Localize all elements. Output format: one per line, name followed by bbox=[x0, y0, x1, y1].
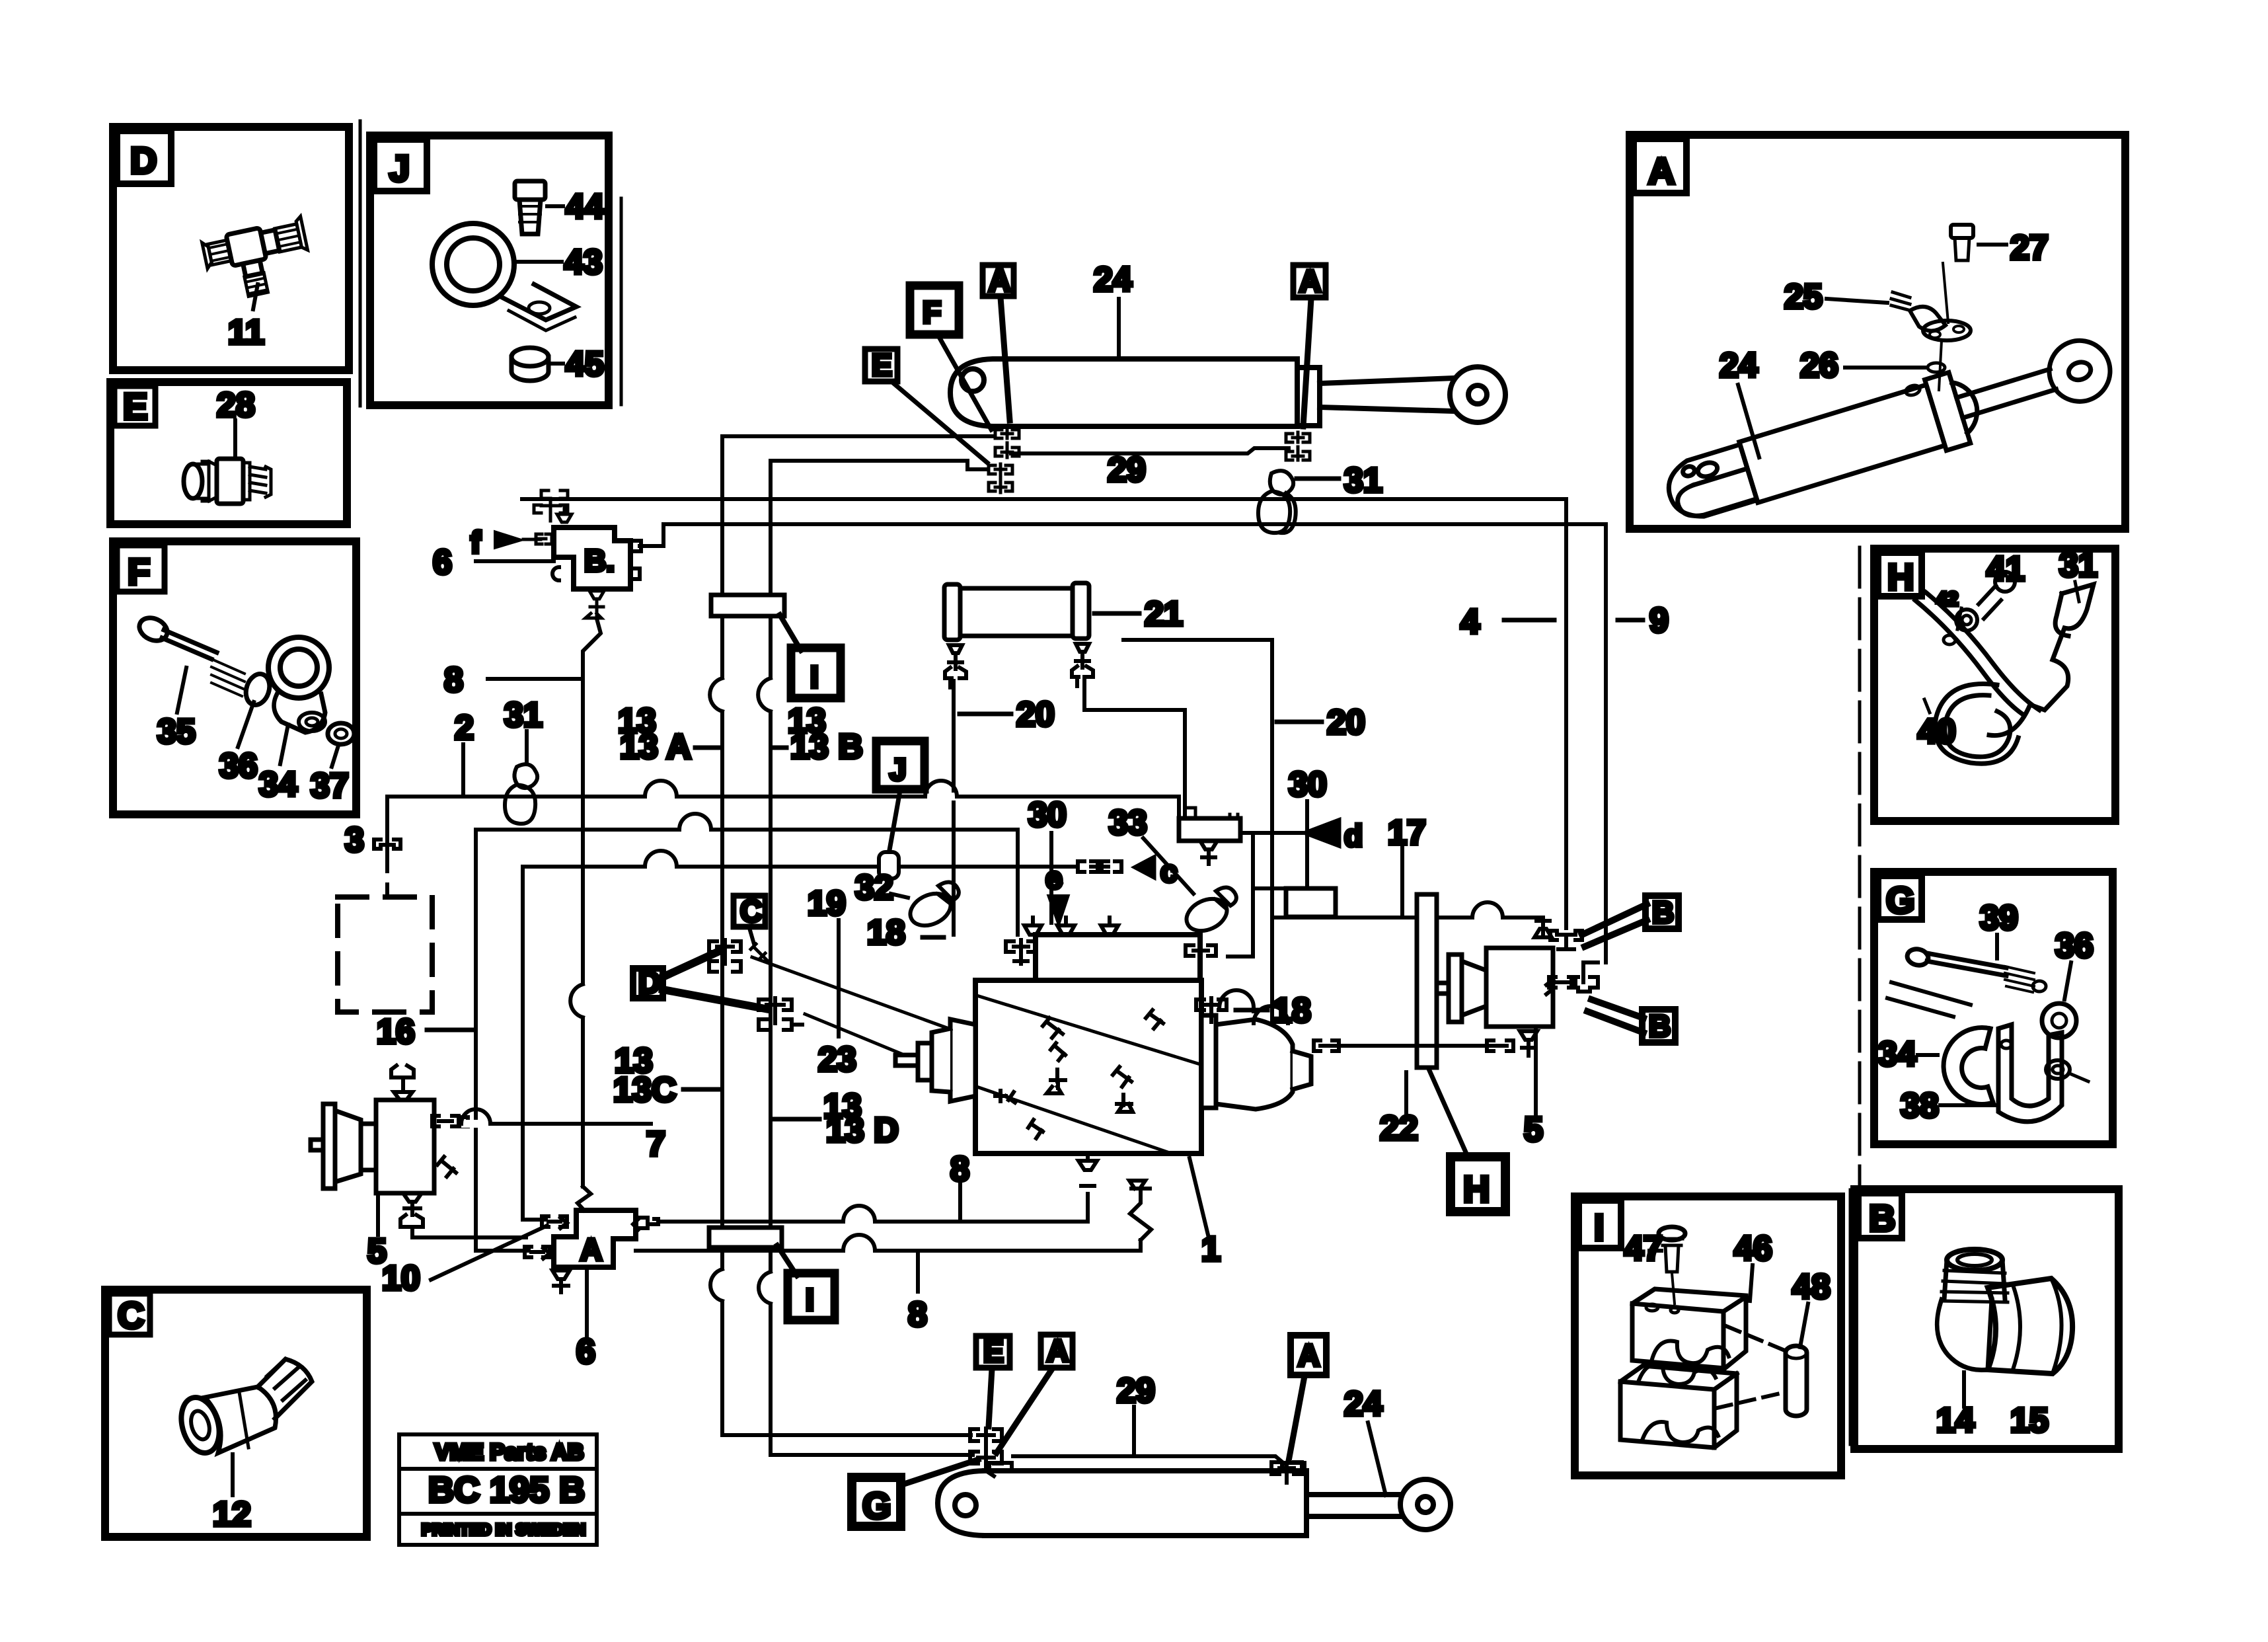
leaf 40 bbox=[1915, 600, 2022, 714]
svg-text:E: E bbox=[983, 1334, 1004, 1368]
T fitting on line 1 bbox=[534, 490, 572, 535]
svg-text:36: 36 bbox=[219, 747, 258, 785]
screw 47 bbox=[1659, 1227, 1685, 1240]
detail box H bbox=[1874, 549, 2115, 821]
svg-text:31: 31 bbox=[504, 696, 543, 734]
trunk x1166 bbox=[771, 461, 987, 469]
labels in box A bbox=[1979, 243, 2006, 247]
fitting part 28 bbox=[184, 459, 271, 504]
svg-text:12: 12 bbox=[213, 1495, 251, 1534]
hook clamp 34 bbox=[1944, 1028, 1993, 1105]
svg-text:10: 10 bbox=[382, 1259, 420, 1298]
clevis bbox=[1661, 444, 1757, 524]
svg-text:A: A bbox=[1298, 1338, 1320, 1372]
svg-text:C: C bbox=[740, 894, 762, 928]
bolt 35 bbox=[135, 613, 245, 696]
label 12 bbox=[231, 1454, 235, 1495]
svg-text:J: J bbox=[889, 752, 907, 787]
svg-text:30: 30 bbox=[1289, 765, 1327, 804]
fittings under 21 bbox=[945, 644, 1093, 687]
svg-text:32: 32 bbox=[855, 869, 893, 907]
hose 7 bbox=[471, 1122, 651, 1126]
svg-text:36: 36 bbox=[2055, 927, 2094, 965]
component 33 bbox=[1179, 818, 1240, 841]
detail box A bbox=[1630, 135, 2125, 529]
label 11 bbox=[253, 284, 258, 309]
dashed box 3 bbox=[338, 897, 432, 1012]
svg-text:34: 34 bbox=[259, 765, 297, 804]
spacer 48 bbox=[1786, 1346, 1807, 1416]
hose line 1 bbox=[522, 499, 1566, 928]
clamp 31 bbox=[1989, 584, 2094, 736]
separator between box D/E column and box J bbox=[359, 121, 362, 406]
hose clamp 31 on line 1 bbox=[1258, 471, 1296, 533]
marker E bbox=[865, 349, 897, 381]
svg-text:F: F bbox=[128, 551, 150, 592]
label 44 bbox=[547, 204, 563, 208]
wire from B down to junction A bbox=[583, 619, 601, 1187]
head and rod bbox=[1297, 368, 1320, 426]
detail box I bbox=[1575, 1196, 1841, 1475]
right motor of valve bbox=[1201, 1015, 1311, 1109]
svg-text:33: 33 bbox=[1109, 804, 1147, 842]
port bbox=[1905, 384, 1921, 397]
marker A bottom right bbox=[1291, 1335, 1326, 1375]
svg-text:VME Parts AB: VME Parts AB bbox=[435, 1440, 584, 1465]
svg-text:27: 27 bbox=[2010, 229, 2049, 267]
svg-text:14: 14 bbox=[1936, 1401, 1975, 1440]
hose line 2 bbox=[640, 524, 1606, 962]
svg-text:37: 37 bbox=[311, 767, 349, 805]
bumps on trunks bbox=[718, 678, 726, 711]
D marker with leaders bbox=[633, 968, 663, 998]
svg-text:E: E bbox=[872, 348, 892, 382]
svg-text:25: 25 bbox=[1784, 278, 1823, 316]
T-fitting part 11 bbox=[201, 216, 315, 303]
lower clamp block bbox=[1620, 1366, 1737, 1448]
svg-text:F: F bbox=[923, 295, 941, 329]
svg-text:15: 15 bbox=[2010, 1401, 2049, 1440]
vertical 20 right bbox=[1123, 640, 1272, 1046]
wire 8 lower bbox=[636, 1240, 1141, 1251]
svg-text:B: B bbox=[1869, 1197, 1895, 1239]
bracket under 30 line bbox=[1286, 888, 1336, 917]
svg-text:29: 29 bbox=[1117, 1372, 1155, 1410]
detail box B bbox=[1854, 1189, 2119, 1449]
bolt 44 bbox=[515, 181, 545, 234]
svg-text:I: I bbox=[806, 1282, 814, 1317]
wire 8 upper left bbox=[488, 677, 581, 681]
svg-text:D: D bbox=[130, 139, 157, 181]
left cone of valve bbox=[895, 1019, 975, 1101]
svg-text:G: G bbox=[1886, 879, 1915, 921]
bolt 27 bbox=[1951, 225, 1973, 238]
wire 6 to junction B bbox=[476, 559, 554, 563]
detail box J bbox=[370, 136, 609, 405]
svg-text:A: A bbox=[1299, 264, 1321, 298]
svg-text:31: 31 bbox=[1344, 461, 1382, 500]
svg-text:34: 34 bbox=[1878, 1035, 1916, 1074]
marker A (left) bbox=[983, 265, 1014, 296]
marker E bottom bbox=[976, 1336, 1010, 1368]
pump 5 (left) bbox=[311, 1100, 434, 1193]
label 43 bbox=[517, 260, 562, 264]
wire d with arrow bbox=[1240, 831, 1302, 835]
washer 42 + bolt 41 bbox=[1956, 609, 1977, 631]
svg-text:30: 30 bbox=[1028, 796, 1067, 834]
junction B bottom port and wire down bbox=[586, 591, 604, 618]
eye bbox=[2042, 333, 2118, 409]
svg-text:17: 17 bbox=[1388, 814, 1426, 852]
small fittings inside valve bbox=[995, 1010, 1163, 1138]
svg-text:41: 41 bbox=[1986, 550, 2025, 588]
svg-text:20: 20 bbox=[1016, 695, 1055, 734]
label 45 bbox=[551, 362, 563, 366]
dashed assembly lines bbox=[1726, 1326, 1790, 1352]
detail box E bbox=[110, 382, 347, 524]
C marker bbox=[734, 896, 765, 927]
svg-text:PRINTED IN SWEDEN: PRINTED IN SWEDEN bbox=[422, 1521, 586, 1539]
junction block A bbox=[554, 1210, 636, 1267]
barrel bbox=[1739, 385, 1945, 502]
svg-text:31: 31 bbox=[2059, 546, 2098, 584]
control valve 1 : upper block bbox=[1036, 935, 1200, 980]
svg-text:4: 4 bbox=[1460, 603, 1480, 641]
svg-text:35: 35 bbox=[157, 713, 196, 751]
svg-text:J: J bbox=[389, 147, 410, 189]
nut 45 bbox=[511, 348, 548, 381]
elbow fitting part 12 bbox=[175, 1359, 312, 1458]
rod (dashed broken) bbox=[1891, 982, 1971, 1005]
svg-text:38: 38 bbox=[1901, 1087, 1939, 1125]
fittings left of cylinder bbox=[970, 1428, 1002, 1476]
svg-text:45: 45 bbox=[566, 345, 604, 383]
hose 29 bottom bbox=[1013, 1456, 1284, 1464]
sleeve marker lower bbox=[709, 1228, 782, 1247]
svg-text:24: 24 bbox=[1094, 260, 1132, 299]
separator left of boxes H and G bbox=[1858, 547, 1862, 1185]
svg-text:3: 3 bbox=[345, 821, 364, 859]
marker F bbox=[910, 286, 959, 334]
svg-text:7: 7 bbox=[646, 1125, 665, 1163]
o-ring 26 bbox=[1928, 363, 1945, 372]
line from 21 left fitting down (hose 20 left) bbox=[952, 681, 956, 935]
svg-text:11: 11 bbox=[228, 313, 264, 352]
marker B 1 bbox=[1645, 896, 1679, 929]
detail box F bbox=[113, 541, 356, 814]
hose 29 top bbox=[1011, 448, 1289, 453]
svg-text:13 D: 13 D bbox=[826, 1111, 899, 1150]
wire from valve top right up to d wire bbox=[1228, 833, 1253, 957]
svg-text:D: D bbox=[638, 965, 660, 999]
wire 8 upper (valve to junction A) bbox=[658, 1194, 1088, 1222]
fittings on top of upper block bbox=[1006, 918, 1216, 964]
svg-text:B: B bbox=[1649, 1009, 1671, 1043]
nut on bracket bbox=[2046, 1060, 2070, 1079]
svg-text:A: A bbox=[1047, 1333, 1069, 1368]
svg-text:2: 2 bbox=[455, 709, 474, 747]
marker B 2 bbox=[1642, 1009, 1675, 1042]
separator right of box J bbox=[620, 198, 623, 405]
cylinder 24 (bottom) bbox=[938, 1471, 1451, 1536]
svg-text:13 A: 13 A bbox=[620, 728, 691, 766]
junction A top zigzag fitting bbox=[578, 1187, 591, 1210]
svg-text:13 B: 13 B bbox=[790, 728, 863, 766]
boxed J marker bbox=[876, 741, 925, 789]
svg-text:48: 48 bbox=[1792, 1268, 1831, 1306]
marker H bbox=[1429, 1069, 1468, 1158]
clamp ring 43 bbox=[432, 223, 576, 331]
detail box G bbox=[1874, 872, 2113, 1144]
svg-text:A: A bbox=[580, 1232, 602, 1267]
svg-text:6: 6 bbox=[433, 543, 452, 582]
junction A ports bbox=[525, 1216, 658, 1292]
svg-text:E: E bbox=[123, 385, 147, 427]
svg-text:13C: 13C bbox=[613, 1071, 676, 1109]
U bracket 38 bbox=[1998, 1025, 2062, 1122]
separators bbox=[360, 121, 1860, 1444]
svg-text:18: 18 bbox=[1273, 992, 1311, 1030]
trunk x1093 bbox=[722, 434, 994, 438]
fitting cluster near D bbox=[709, 940, 802, 1030]
marker G bbox=[852, 1477, 901, 1526]
part 3 dashed drop bbox=[385, 797, 389, 836]
pump 5 (right) bbox=[1437, 948, 1553, 1027]
svg-text:8: 8 bbox=[908, 1296, 927, 1334]
svg-text:42: 42 bbox=[1936, 588, 1958, 610]
cylinder assembly in box A bbox=[1659, 225, 2119, 531]
hose L3 (c line) bbox=[523, 867, 1077, 1220]
junction block B bbox=[554, 528, 630, 589]
accumulator 21 bbox=[944, 583, 1089, 640]
hose L2 (16) bbox=[476, 830, 1018, 1251]
svg-text:16: 16 bbox=[377, 1013, 415, 1051]
svg-text:26: 26 bbox=[1800, 346, 1838, 385]
bolt 39 bbox=[1906, 947, 1930, 967]
svg-text:19: 19 bbox=[808, 884, 846, 923]
svg-text:e: e bbox=[1045, 861, 1063, 895]
elbow 14 with nut 15 bbox=[1947, 1249, 2002, 1271]
detail box D bbox=[113, 127, 349, 370]
marker A bottom left bbox=[1041, 1335, 1073, 1368]
rod bbox=[1957, 369, 2057, 418]
svg-text:18: 18 bbox=[867, 914, 905, 952]
svg-text:H: H bbox=[1463, 1168, 1490, 1210]
collar/head bbox=[1925, 372, 1971, 450]
svg-text:43: 43 bbox=[564, 243, 603, 282]
hoses 19/23 diagonal bbox=[752, 957, 978, 1039]
loop 40 bottom bbox=[1945, 695, 2010, 757]
mounting plate 22 bbox=[1417, 894, 1437, 1068]
svg-text:40: 40 bbox=[1918, 713, 1956, 751]
svg-text:9: 9 bbox=[1649, 602, 1669, 640]
fitting 25 bbox=[1910, 307, 1946, 331]
svg-text:H: H bbox=[1887, 556, 1914, 598]
labels 35 36 34 37 bbox=[177, 668, 186, 713]
interior diagonal bbox=[977, 996, 1200, 1064]
marker A (right) bbox=[1293, 265, 1326, 297]
svg-text:24: 24 bbox=[1344, 1385, 1382, 1423]
svg-text:G: G bbox=[862, 1485, 891, 1526]
line from 21 right fitting to 33 bbox=[1084, 677, 1185, 814]
nut 37 bbox=[328, 723, 354, 744]
pump feed line y1388 bbox=[1272, 918, 1543, 933]
sleeve marker upper bbox=[711, 595, 784, 616]
svg-text:I: I bbox=[1594, 1206, 1605, 1248]
svg-text:23: 23 bbox=[818, 1040, 856, 1079]
svg-text:8: 8 bbox=[444, 661, 463, 699]
svg-text:A: A bbox=[1648, 150, 1675, 192]
hook clamp 31 on L1 bbox=[505, 764, 537, 824]
control valve 1 : main block bbox=[975, 980, 1201, 1153]
svg-text:24: 24 bbox=[1720, 346, 1758, 385]
B marker fittings at line ends bbox=[1550, 931, 1598, 992]
svg-text:5: 5 bbox=[1524, 1111, 1543, 1149]
svg-text:A: A bbox=[989, 263, 1010, 297]
clamp 34 bbox=[268, 637, 329, 732]
hose L1 (part 2) bbox=[387, 797, 1179, 818]
lower feed line to pump bbox=[1331, 1044, 1490, 1048]
svg-text:29: 29 bbox=[1108, 451, 1146, 489]
hose 18 double arc bbox=[1219, 990, 1288, 1023]
svg-text:I: I bbox=[810, 660, 819, 694]
bump on trunk x882 bbox=[579, 984, 587, 1017]
svg-text:B: B bbox=[1652, 895, 1674, 929]
svg-text:1: 1 bbox=[1201, 1230, 1221, 1269]
svg-text:46: 46 bbox=[1734, 1230, 1772, 1268]
junction B right ports bbox=[632, 541, 641, 579]
fittings under cylinder bbox=[989, 428, 1310, 492]
washer 36 bbox=[2042, 1003, 2076, 1038]
svg-text:39: 39 bbox=[1980, 899, 2018, 937]
svg-text:BC 195 B: BC 195 B bbox=[428, 1470, 585, 1510]
washer 36 bbox=[242, 671, 273, 708]
svg-text:21: 21 bbox=[1145, 595, 1183, 633]
upper clamp block 46 bbox=[1632, 1289, 1746, 1368]
nut 15 bbox=[1988, 1278, 2072, 1374]
cylinder 24 (top) bbox=[950, 359, 1505, 426]
svg-text:B.: B. bbox=[584, 543, 615, 578]
svg-text:C: C bbox=[118, 1294, 144, 1336]
svg-text:20: 20 bbox=[1327, 703, 1365, 742]
svg-text:22: 22 bbox=[1380, 1109, 1418, 1148]
svg-text:d: d bbox=[1344, 818, 1363, 853]
plate VME bbox=[399, 1434, 597, 1545]
svg-text:44: 44 bbox=[566, 188, 604, 226]
J small marker on L3 bbox=[879, 852, 899, 879]
svg-text:f: f bbox=[471, 525, 481, 559]
detail box C bbox=[105, 1290, 367, 1537]
